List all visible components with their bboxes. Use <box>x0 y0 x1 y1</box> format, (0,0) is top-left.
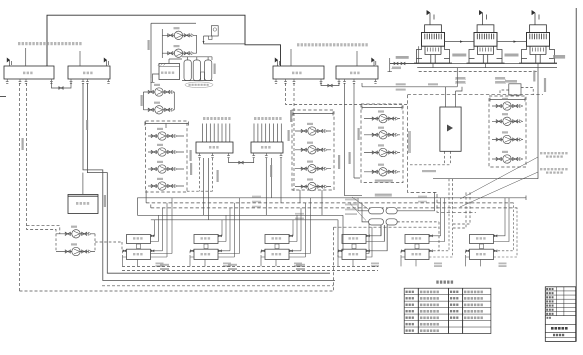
DN vertical labels towers <box>533 71 535 82</box>
control box dashed links <box>500 87 533 94</box>
capsule manifold r1b <box>386 208 397 214</box>
bus chilled supply dashed 2 <box>151 205 518 208</box>
bus DN labels <box>252 196 261 198</box>
bus solid 2 <box>137 198 343 251</box>
softener middle box <box>201 72 205 81</box>
manifold A dashed drops <box>187 158 213 191</box>
chiller bottom dashed <box>410 151 451 165</box>
pump D top manifold <box>362 106 402 110</box>
pump P11 row <box>295 168 331 170</box>
manifold B drops <box>266 158 281 215</box>
pump P6 row <box>148 151 184 153</box>
frame make-up water unit <box>151 23 196 78</box>
boiler room box <box>68 195 98 214</box>
softener base <box>182 80 213 82</box>
right risers from bus <box>449 179 453 208</box>
chiller unit <box>440 107 461 151</box>
T3 dashed drops <box>286 83 408 104</box>
right bus solid <box>433 178 538 180</box>
soft water tank <box>159 64 180 80</box>
collector right <box>196 35 198 53</box>
tank T2 ports <box>70 79 73 83</box>
pressure tank controller <box>211 26 218 36</box>
tap water label vertical <box>214 64 216 75</box>
manifold A solid drops <box>204 158 209 220</box>
tank T3-T4 connector <box>321 82 339 86</box>
wire makeup run <box>204 43 246 45</box>
tap water DN label <box>392 67 401 69</box>
pump P8 row <box>148 185 184 187</box>
pump P15 row <box>364 152 400 154</box>
legend table cells <box>406 291 414 293</box>
pump B top manifold <box>145 122 189 129</box>
control box C1 <box>509 84 521 95</box>
tank T4 ports <box>338 79 341 83</box>
dashed bottom bus outer <box>20 290 334 292</box>
boiler pump collectors <box>55 234 57 252</box>
collector left <box>161 29 163 58</box>
cooling tower c=433 <box>414 10 452 63</box>
T4 drop bends <box>345 178 363 196</box>
AHU inter dashes <box>122 266 378 270</box>
pump P5 row <box>148 135 184 137</box>
dashed frame pump group C <box>292 110 334 190</box>
controller drop wire <box>204 36 209 44</box>
condenser bus <box>362 68 457 87</box>
AHU unit x=194 mode1 <box>190 198 240 267</box>
tank T2 <box>68 66 110 79</box>
plantroom dashed boundary <box>408 94 544 96</box>
pump P20 row <box>492 158 523 160</box>
tower riser to bus <box>537 68 539 179</box>
tank T2 flag valve <box>104 58 108 66</box>
dashed frame chilled pumps B <box>146 121 188 192</box>
chiller top pipes <box>446 87 463 107</box>
manifold A-B connector <box>229 158 254 163</box>
note text left <box>18 42 82 45</box>
AHU unit x=469.5 mode3 <box>466 198 518 267</box>
pump P4 row <box>143 109 174 111</box>
pump PE2 row <box>56 251 95 253</box>
mid text labels right <box>375 194 392 196</box>
tap water text <box>396 56 409 59</box>
manifold A ports <box>198 153 201 157</box>
pump P1 row <box>162 34 196 36</box>
pump PE1 row <box>56 233 95 235</box>
manifold tank B <box>251 142 283 153</box>
capsule left stubs <box>358 198 369 222</box>
bus chilled supply dashed 1 <box>146 200 513 203</box>
tank T3 ports <box>275 79 278 83</box>
DN label vertical pumpB <box>141 95 143 106</box>
comb risers supply <box>203 124 230 143</box>
manifold B long drop <box>271 158 273 198</box>
cooling tower c=538 <box>519 10 557 63</box>
pump P2 row <box>162 52 196 54</box>
soft tank feed link <box>169 59 182 64</box>
pump P19 row <box>492 139 523 141</box>
leader diagonals capsules <box>350 197 369 221</box>
tank T1-T2 connector <box>51 82 71 88</box>
VRV text 1 <box>540 152 568 154</box>
tower collector main <box>390 63 557 65</box>
tank T4 flag valve <box>372 58 376 66</box>
tower dashed bus <box>419 71 538 73</box>
VRV text 2 <box>540 168 568 170</box>
capsule link r2 dashed <box>397 222 439 251</box>
riser from T2 a <box>83 83 335 281</box>
dashed riser from T1 left <box>19 83 21 291</box>
softener cylinders <box>184 60 191 81</box>
DN vertical labels T34 <box>290 110 292 122</box>
dashed riser from T1 to pumps <box>27 83 57 234</box>
capsule down stubs <box>381 225 387 251</box>
chiller label text <box>408 131 411 153</box>
pump P13 row <box>364 118 400 120</box>
pump P17 row <box>492 105 523 107</box>
left edge tick <box>0 96 6 98</box>
pump P7 row <box>148 168 184 170</box>
dashed frame pump group F <box>489 96 526 167</box>
pump P16 row <box>364 171 400 173</box>
title block texts <box>546 288 553 290</box>
boiler stack <box>82 173 84 195</box>
sheet right border <box>575 8 577 342</box>
pump C top manifold <box>293 112 333 116</box>
wire main top run <box>47 15 281 66</box>
tank T1 top stub <box>25 48 27 66</box>
AHU DN labels <box>160 264 169 266</box>
tank T3 flag valve <box>275 58 279 66</box>
note text center <box>297 43 368 46</box>
tower drops <box>433 63 538 68</box>
DN label vertical pumpC <box>338 155 340 169</box>
T4 solid drops <box>345 83 355 196</box>
tank T3 top stub <box>290 49 292 66</box>
dashed bus right leg <box>334 227 440 291</box>
capsule link r1 <box>397 192 434 210</box>
riser from T2 b <box>87 83 330 273</box>
condenser DN labels <box>396 83 406 85</box>
pump P3 row <box>143 91 174 93</box>
tower left drop <box>418 46 420 63</box>
title block <box>545 287 575 342</box>
cooling tower c=485.5 <box>467 10 505 63</box>
bus solid 3 <box>151 220 338 257</box>
pump P9 row <box>295 130 331 132</box>
pump P18 row <box>492 120 523 122</box>
soft tank drain <box>151 74 160 82</box>
softener top pipes <box>182 57 212 60</box>
tower labels <box>452 54 466 57</box>
collector pumps AB <box>143 78 174 110</box>
pump C risers <box>146 190 322 215</box>
pump F top manifold <box>490 98 525 102</box>
softener oval label <box>185 82 213 88</box>
DN pair labels towers <box>455 77 465 79</box>
controller base box <box>209 36 212 40</box>
AHU unit x=126.5 mode1 <box>123 198 173 267</box>
machine table title <box>436 281 453 284</box>
AHU unit x=342 mode2 <box>338 223 387 267</box>
comb text return <box>254 117 282 120</box>
dashed mid-left bus <box>27 226 60 234</box>
capsule manifold r2b <box>386 219 397 225</box>
DN vertical labels manifolds <box>190 163 192 175</box>
tank T1 flag valve <box>7 58 11 66</box>
pump D label <box>375 180 393 182</box>
tank T4 <box>336 66 378 79</box>
capsule manifold r1a <box>369 208 384 214</box>
AHU unit x=405 mode3 <box>401 198 453 267</box>
capsule manifold r2a <box>369 219 384 225</box>
tower interconnect pipe <box>445 41 527 43</box>
tap water inlet <box>388 58 392 72</box>
leader diagonals VRV <box>460 157 538 207</box>
dashed frame pump group D <box>361 104 403 183</box>
DN label vertical left <box>22 138 24 150</box>
tank T4 top stub <box>356 51 358 66</box>
AHU unit x=265 mode1 <box>261 198 311 267</box>
tower collector second <box>417 67 557 69</box>
tank T1 ports <box>6 79 9 83</box>
comb risers return <box>254 124 281 143</box>
pump P14 row <box>364 134 400 136</box>
pump P10 row <box>295 149 331 151</box>
right risers VRV dashed <box>453 192 471 228</box>
pump P12 row <box>295 186 331 188</box>
tank T1 <box>4 66 54 79</box>
bus solid top <box>137 196 526 201</box>
dashed bottom bus inner <box>102 285 334 287</box>
tank T3 <box>273 66 324 79</box>
manifold tank A <box>196 142 233 153</box>
manifold B ports <box>252 153 255 157</box>
comb text supply <box>203 117 231 120</box>
legend table <box>404 288 491 333</box>
tank T2 top stub <box>79 51 81 66</box>
